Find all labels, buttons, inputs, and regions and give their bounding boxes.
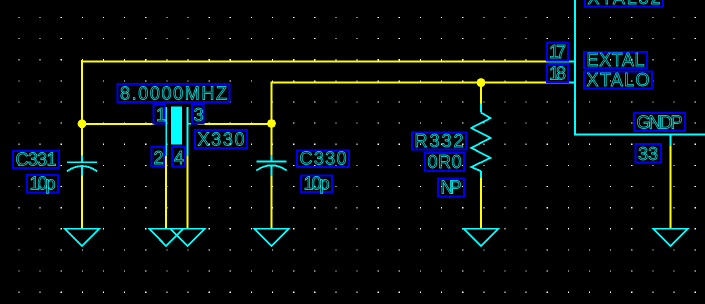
capacitor C330 symbol (256, 155, 286, 176)
crystal X330 symbol (154, 107, 198, 157)
pin number 33 (636, 144, 662, 164)
pin name XTALO (584, 70, 652, 90)
resistor R332 symbol (471, 104, 490, 179)
pin number 4 (172, 147, 185, 168)
ground at C331 (65, 229, 99, 246)
pin 33 GNDP pin lead (670, 135, 672, 147)
svg-text:GNDP: GNDP (637, 113, 683, 133)
junction node at C331 / crystal pin1 (78, 119, 87, 128)
pin 2 lead (165, 144, 167, 156)
ground at crystal pin2 (149, 229, 183, 246)
wire net XTAL0 horizontal to pin 18 (271, 82, 548, 84)
wire crystal row left segment (82, 123, 155, 125)
svg-text:17: 17 (549, 42, 566, 62)
wire net EXTAL vertical left (81, 60, 83, 156)
svg-text:EXTAL: EXTAL (587, 50, 645, 70)
wire crystal pin4 to ground (187, 156, 189, 229)
IC U (right, partially offscreen) body outline (575, 0, 705, 135)
svg-text:1: 1 (156, 105, 166, 125)
ground at R332 (464, 229, 498, 246)
svg-text:XTALO: XTALO (587, 70, 650, 90)
reference label C330 (297, 149, 349, 169)
junction node at C330 / crystal pin3 (267, 119, 276, 128)
wire R332 bottom to ground (480, 178, 482, 229)
pin number 18 (547, 64, 568, 84)
svg-text:2: 2 (154, 148, 164, 168)
value label 0R0 (425, 152, 464, 172)
pin 3 lead (188, 123, 198, 125)
svg-text:C330: C330 (300, 149, 347, 169)
wire GNDP pin 33 to ground (670, 146, 672, 229)
label NP (438, 178, 464, 198)
left plate (165, 107, 167, 144)
svg-text:10p: 10p (30, 174, 56, 194)
wire crystal pin2 to ground (165, 156, 167, 229)
reference label R332 (412, 131, 466, 151)
svg-text:NP: NP (441, 178, 462, 198)
value label 10p (C330) (301, 174, 332, 194)
pin 18 XTAL0 pin lead (548, 82, 576, 84)
wire C331 bottom to ground (81, 175, 83, 228)
wire crystal row right segment (197, 123, 271, 125)
svg-text:C331: C331 (16, 150, 57, 170)
ground at crystal pin4 (171, 229, 205, 246)
svg-text:XTAL32: XTAL32 (588, 0, 661, 8)
pin number 2 (152, 147, 165, 168)
pin 17 EXTAL pin lead (548, 61, 576, 63)
pin 4 lead (187, 144, 189, 156)
svg-text:8.0000MHZ: 8.0000MHZ (120, 84, 227, 104)
svg-text:3: 3 (194, 105, 204, 125)
wire R332 top (480, 83, 482, 104)
pin number 17 (547, 42, 568, 62)
svg-text:33: 33 (638, 144, 658, 164)
svg-text:R332: R332 (415, 131, 464, 151)
pin name EXTAL (584, 50, 647, 70)
svg-text:4: 4 (174, 148, 184, 168)
pin name XTAL32 (cut off at top) (585, 0, 663, 8)
pin number 1 (154, 105, 167, 126)
ground at GNDP (654, 229, 688, 246)
pin name GNDP (634, 113, 685, 133)
svg-text:10p: 10p (304, 174, 330, 194)
capacitor C331 symbol (67, 156, 97, 176)
reference label C331 (13, 150, 59, 170)
svg-text:0R0: 0R0 (428, 152, 462, 172)
reference label X330 (195, 130, 247, 150)
wire C330 bottom to ground (271, 176, 273, 228)
crystal body (171, 107, 182, 145)
right plate (187, 107, 189, 144)
pin 1 lead (154, 123, 166, 125)
svg-text:X330: X330 (198, 130, 245, 150)
svg-text:18: 18 (549, 64, 566, 84)
value label 10p (C331) (27, 174, 58, 194)
wire net XTAL0 vertical at C330 (271, 82, 273, 155)
pin number 3 (192, 105, 204, 126)
value label 8.0000MHZ (118, 84, 230, 104)
junction node at R332 top (477, 78, 486, 87)
wire net EXTAL horizontal top (81, 61, 548, 63)
ground at C330 (255, 229, 289, 246)
